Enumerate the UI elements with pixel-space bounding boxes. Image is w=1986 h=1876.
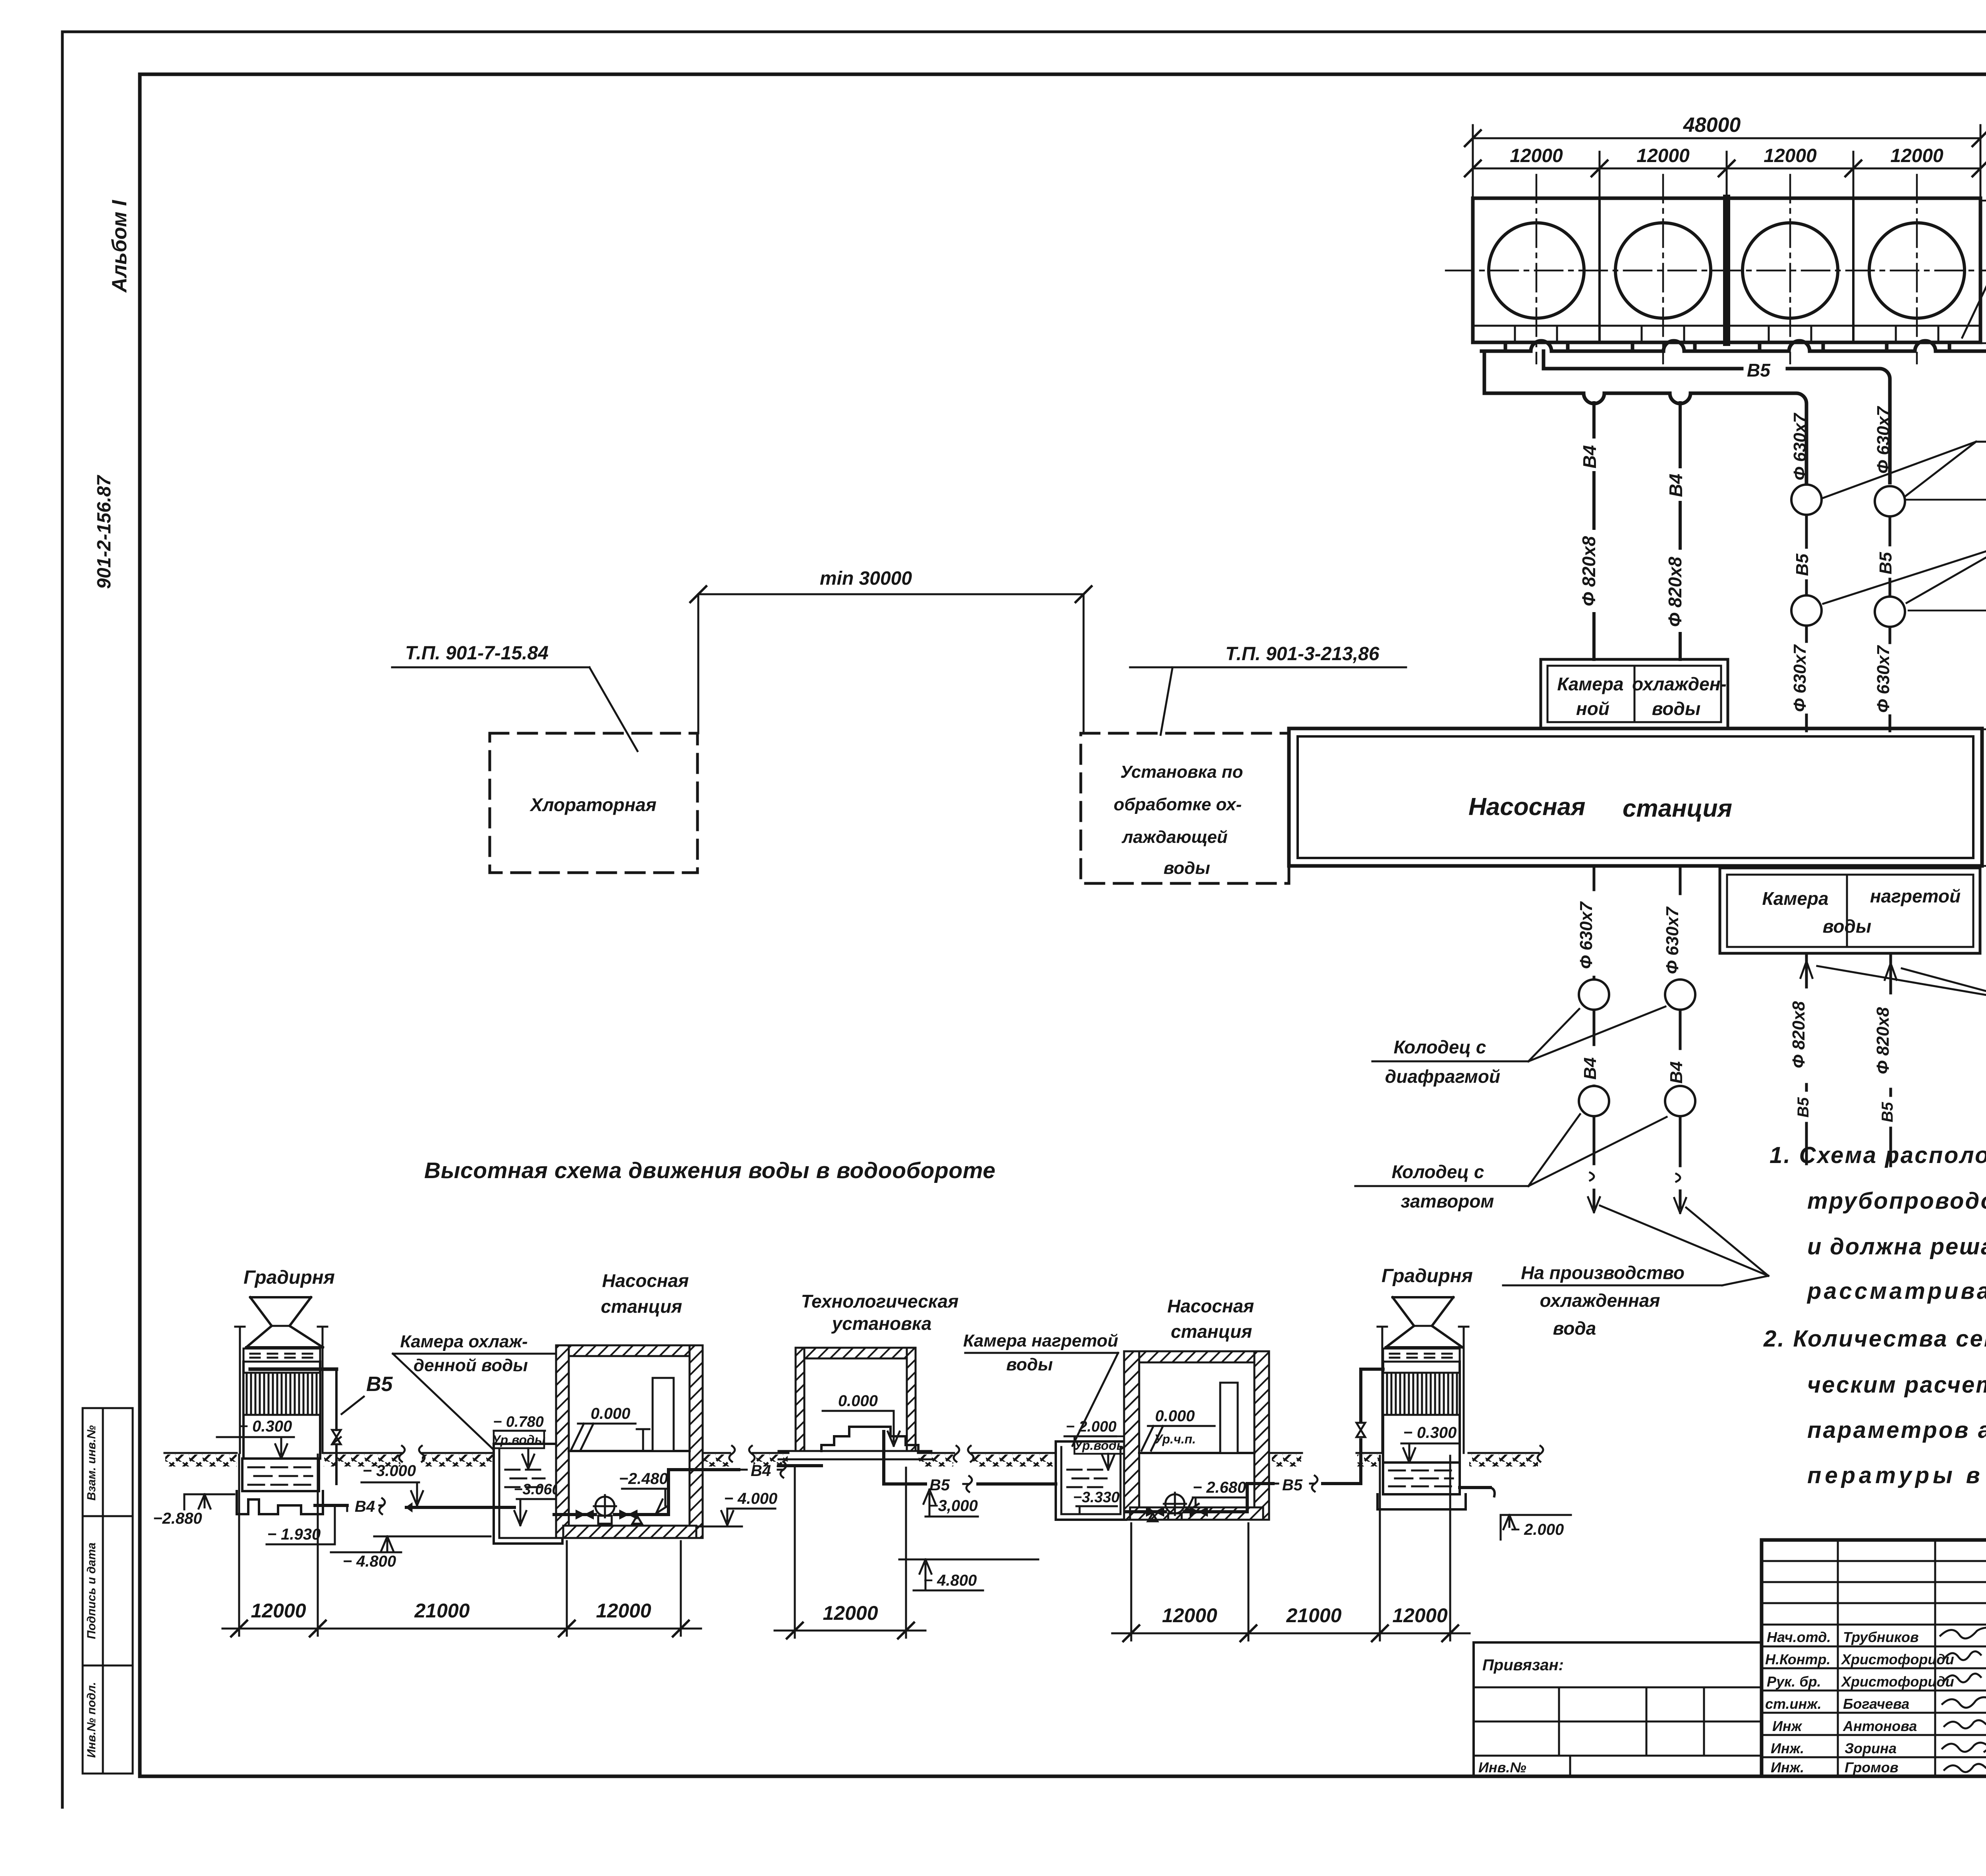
svg-text:Инж.: Инж. (1771, 1759, 1804, 1776)
svg-text:48000: 48000 (1683, 114, 1741, 137)
label B4 (between PS1 and tech) (751, 1462, 786, 1480)
dimension line group 1 (tower1 / 21000 / PS1) (222, 1455, 701, 1636)
svg-text:Камера: Камера (1762, 888, 1828, 909)
tech installation inlet pipe (779, 1464, 821, 1467)
svg-text:0.000: 0.000 (591, 1405, 630, 1422)
fan circle 4 (1869, 223, 1965, 318)
tower 2 eliminator band (1383, 1349, 1460, 1362)
svg-text:12000: 12000 (596, 1600, 651, 1622)
svg-text:12000: 12000 (1636, 145, 1690, 166)
svg-text:Ф 630х7: Ф 630х7 (1790, 644, 1810, 712)
label T.P.901-3-213.86 (1130, 643, 1406, 735)
heated water inlet pipe no.1 (below chamber) (1801, 953, 1812, 1164)
elevation -2.000 / Ур.воды (tank 2) (1064, 1418, 1127, 1470)
svg-text:12000: 12000 (251, 1600, 306, 1622)
label: Колодец с диафрагмой (upper) (1823, 520, 1986, 604)
svg-text:− 3.000: − 3.000 (363, 1462, 416, 1480)
label B4 (tower 1 outlet) (355, 1498, 385, 1515)
svg-text:Ф 820х8: Ф 820х8 (1578, 536, 1599, 606)
ground segment H (1271, 1453, 1302, 1466)
ground segment J (1468, 1446, 1543, 1466)
tower 1 outlet pipe B4 (315, 1505, 382, 1511)
pump station 1 vent (637, 1429, 649, 1451)
label B5 (PS2 discharge) (1282, 1476, 1318, 1494)
svg-text:Зорина: Зорина (1845, 1740, 1897, 1756)
riser Ф630x7 no.2 (right) (1889, 516, 1891, 731)
svg-text:Ф 630х7: Ф 630х7 (1874, 645, 1893, 713)
elevation -4.800 (right) (899, 1559, 1038, 1590)
fan circle 3 (1743, 223, 1838, 318)
cooling tower 1 funnel (246, 1297, 323, 1347)
svg-text:В5: В5 (1793, 553, 1812, 576)
elevation -4.800 (left) (331, 1536, 491, 1570)
heated water inlet pipe no.2 (below chamber) (1885, 953, 1897, 1166)
dimension line group 2 (tech installation) (775, 1468, 925, 1638)
svg-text:Инж.: Инж. (1771, 1740, 1804, 1756)
pump station 1 standpipe (653, 1378, 674, 1451)
svg-text:Ур.воды: Ур.воды (492, 1433, 546, 1447)
svg-text:0.000: 0.000 (838, 1392, 878, 1410)
svg-text:В5: В5 (929, 1476, 950, 1494)
label: Трубопроводы подводящие нагретую воду (1817, 966, 1986, 1027)
svg-text:Громов: Громов (1845, 1759, 1899, 1776)
grid line A (top) (1980, 342, 1986, 344)
cooling tower block (plan) (1473, 198, 1980, 342)
pipe to production no.2 (below pump station) (1674, 866, 1686, 1213)
svg-text:В5: В5 (1795, 1097, 1812, 1118)
tower 2 side columns with caps (1377, 1327, 1468, 1453)
label B5 (after tech) (929, 1476, 972, 1494)
svg-text:Христофориди: Христофориди (1841, 1651, 1954, 1667)
svg-text:В4: В4 (1667, 1061, 1686, 1084)
svg-text:На производство: На производство (1521, 1262, 1685, 1283)
svg-text:901-2-156.87: 901-2-156.87 (94, 475, 115, 589)
svg-text:Установка по: Установка по (1121, 762, 1243, 782)
tech installation pedestal (821, 1427, 918, 1451)
svg-text:Альбом I: Альбом I (108, 199, 131, 293)
pump 2 piping (1126, 1484, 1273, 1512)
svg-text:12000: 12000 (1764, 145, 1817, 166)
personnel table columns (1762, 1540, 1986, 1776)
svg-text:параметров атмосферного возд: параметров атмосферного воздуха, перепад… (1807, 1417, 1986, 1443)
svg-text:2. Количества секций градире: 2. Количества секций градирен уточняется… (1763, 1326, 1986, 1352)
dimension line group 3 (PS2 / 21000 / tower2) (1112, 1456, 1470, 1641)
svg-text:В4: В4 (1665, 474, 1686, 497)
tech installation building walls (796, 1348, 916, 1451)
svg-text:охлажденная: охлажденная (1540, 1290, 1660, 1311)
elevation 0.000 (PS1) (571, 1405, 636, 1450)
svg-text:В5: В5 (1876, 552, 1895, 574)
horizontal centreline through fans (1446, 270, 1986, 272)
svg-text:В4: В4 (1579, 445, 1600, 469)
svg-text:Насосная: Насосная (1167, 1296, 1254, 1316)
tower section divider 3 (1852, 198, 1855, 342)
tower 1 body side walls (243, 1362, 320, 1459)
elevation -0.780 / Ур.воды (492, 1414, 546, 1469)
svg-text:и должна решаться с учетом: и должна решаться с учетом конкретных ус… (1807, 1234, 1986, 1260)
chamber 1 tank (494, 1444, 562, 1544)
ground segment B (323, 1446, 405, 1466)
tower 2 basin underside (1377, 1494, 1466, 1509)
dimension 48000 (1465, 125, 1986, 198)
svg-text:− 1.930: − 1.930 (267, 1526, 321, 1543)
label: Камера нагретой воды (elev) (963, 1331, 1118, 1446)
svg-text:станция: станция (1623, 795, 1732, 822)
svg-text:Колодец с: Колодец с (1394, 1037, 1486, 1057)
grid line B (lower) (1982, 728, 1986, 730)
tower 2 water basin (1383, 1463, 1460, 1494)
svg-text:12000: 12000 (1510, 145, 1563, 166)
vertical centreline fan 4 (1916, 175, 1918, 363)
svg-text:Инв.№: Инв.№ (1478, 1759, 1526, 1776)
riser Ф630x7 no.1 (left) (1805, 515, 1808, 731)
svg-text:диафрагмой: диафрагмой (1385, 1066, 1500, 1087)
svg-text:В5: В5 (1747, 360, 1771, 381)
triangle support mark (632, 1516, 642, 1524)
ground segment G (968, 1446, 1054, 1466)
pipe B4 to chamber 1 (406, 1503, 514, 1511)
well (затвор) on riser 2 (1875, 486, 1905, 516)
riser B4 no.1 (Ф820x8) (1592, 403, 1596, 659)
svg-text:воды: воды (1163, 858, 1210, 878)
elevation -2.480 (619, 1470, 668, 1513)
svg-text:Привязан:: Привязан: (1482, 1656, 1564, 1674)
svg-text:− 0.300: − 0.300 (239, 1418, 292, 1435)
svg-text:охлажден-: охлажден- (1632, 674, 1727, 694)
pipe B4 to tech installation (739, 1466, 796, 1470)
svg-text:− 2.680: − 2.680 (1193, 1479, 1246, 1496)
svg-text:12000: 12000 (1890, 145, 1943, 166)
chamber 2 tank (heated water) (1056, 1441, 1126, 1520)
valve on suction (576, 1510, 593, 1519)
triangle support mark PS2 (1148, 1513, 1157, 1521)
svg-text:денной воды: денной воды (413, 1356, 528, 1375)
svg-text:Т.П. 901-3-213,86: Т.П. 901-3-213,86 (1225, 643, 1379, 665)
ground segment I (1356, 1453, 1381, 1466)
svg-text:Насосная: Насосная (1468, 793, 1586, 821)
svg-text:−2.480: −2.480 (619, 1470, 668, 1488)
svg-text:Богачева: Богачева (1843, 1696, 1909, 1712)
svg-text:− 4.000: − 4.000 (724, 1490, 778, 1507)
NOTES-DONE (1474, 1540, 1986, 1851)
svg-text:Подпись и дата: Подпись и дата (85, 1542, 98, 1639)
svg-text:12000: 12000 (1162, 1604, 1217, 1627)
svg-text:− 0.780: − 0.780 (493, 1414, 544, 1430)
svg-text:Инв.№ подл.: Инв.№ подл. (85, 1682, 98, 1758)
elevation -3.060 (514, 1481, 560, 1525)
outlet stubs below tower (1505, 342, 1949, 351)
ground segment E (749, 1446, 788, 1466)
svg-text:Ф 630х7: Ф 630х7 (1576, 901, 1596, 969)
svg-text:Ф 630х7: Ф 630х7 (1874, 406, 1893, 473)
well (диафрагма) on riser 1 (1791, 595, 1822, 626)
pump station 2 standpipe (1220, 1383, 1238, 1453)
collector pipe line 1 with jump-overs (1482, 341, 1986, 351)
tower 1 water basin (242, 1459, 319, 1491)
svg-text:вода: вода (1553, 1318, 1596, 1339)
title block outline (1762, 1540, 1986, 1776)
valves on discharge (620, 1510, 637, 1519)
privyazan table (1474, 1642, 1762, 1776)
elevation -4.000 (PS1) (696, 1490, 777, 1526)
ground segment D (703, 1446, 735, 1466)
elevation -0.300 (tower 2) (1401, 1424, 1460, 1463)
well (диафрагма) on riser 2 (1875, 597, 1905, 627)
svg-text:Взам. инв.№: Взам. инв.№ (85, 1425, 98, 1501)
svg-text:Градирня: Градирня (1381, 1265, 1473, 1287)
svg-text:−3.330: −3.330 (1073, 1489, 1119, 1506)
chamber of cooled water (plan box) (1541, 659, 1728, 728)
tower 2 fill band (stripes) (1383, 1373, 1460, 1415)
svg-text:−3.060: −3.060 (514, 1481, 560, 1498)
svg-text:Ф 820х8: Ф 820х8 (1665, 556, 1685, 627)
svg-text:станция: станция (1171, 1321, 1252, 1342)
svg-text:Технологическая: Технологическая (801, 1291, 959, 1312)
svg-text:воды: воды (1652, 698, 1700, 719)
svg-text:Ф 630х7: Ф 630х7 (1790, 412, 1810, 480)
label: Колодец с диафрагмой (lower) (1372, 1007, 1665, 1087)
tower section divider 1 (1598, 198, 1601, 342)
svg-text:В5: В5 (366, 1373, 393, 1396)
pipe B5 header (line 2) (1544, 351, 1890, 483)
ground segment A (164, 1453, 237, 1466)
svg-text:−2.880: −2.880 (153, 1510, 202, 1527)
svg-text:min 30000: min 30000 (820, 568, 912, 589)
tower 1 eliminator band (243, 1349, 320, 1362)
pump 2 (1164, 1493, 1186, 1520)
svg-text:Трубников: Трубников (1843, 1629, 1919, 1645)
pump station 2 building walls (1124, 1351, 1269, 1520)
tower 2 outlet pipe (1460, 1488, 1495, 1496)
svg-text:Градирня: Градирня (243, 1267, 335, 1288)
personnel names (1841, 1629, 1954, 1776)
dimension min 30000 (690, 568, 1092, 733)
pipe B5 from PS2 to tower 2 (1273, 1369, 1383, 1484)
svg-text:12000: 12000 (823, 1602, 878, 1624)
riser B4 no.2 (Ф820x8) (1679, 403, 1682, 659)
svg-text:В5: В5 (1879, 1102, 1896, 1123)
tower 1 fill band (stripes) (243, 1373, 320, 1415)
fan circle 2 (1615, 223, 1711, 318)
svg-text:Камера охлаж-: Камера охлаж- (400, 1332, 527, 1351)
well (затвор) on riser 1 (1791, 485, 1822, 515)
svg-text:Камера нагретой: Камера нагретой (963, 1331, 1118, 1350)
pump station (plan box) (1289, 728, 1982, 866)
svg-text:− 0.300: − 0.300 (1403, 1424, 1457, 1441)
valves pump 2 (1146, 1507, 1164, 1516)
svg-text:установка: установка (831, 1313, 932, 1334)
svg-text:В5: В5 (1282, 1476, 1303, 1494)
pump station 2 floor line (1139, 1452, 1254, 1454)
well (диафрагма) lower pipe 2 (1665, 980, 1695, 1010)
tech outlet pipe B5 down and right (884, 1432, 1056, 1484)
svg-text:Инж: Инж (1772, 1718, 1803, 1734)
label T.P.901-7-15.84 (392, 643, 638, 751)
valve on tower 2 riser (1356, 1423, 1365, 1437)
elevation 0.000 / Ур.ч.п. (PS2) (1142, 1407, 1215, 1451)
svg-text:12000: 12000 (1392, 1604, 1447, 1627)
elevation -3.000 (left) (361, 1462, 423, 1505)
vertical dimension chain at right (1905, 193, 1986, 959)
elevation -0.300 (tower 1) (217, 1418, 294, 1459)
tower section divider 2 (thick) (1723, 198, 1730, 342)
svg-text:Н.Контр.: Н.Контр. (1765, 1651, 1831, 1667)
tower internal bottom cells row (1474, 326, 1979, 342)
svg-text:Хлораторная: Хлораторная (529, 794, 656, 815)
elevation 0.000 (tech) (823, 1392, 900, 1446)
svg-text:В4: В4 (1580, 1057, 1600, 1080)
personnel roles (1765, 1629, 1831, 1776)
vertical centreline fan 3 (1789, 175, 1791, 363)
label: Вентиляторные многосекционные градирни (1962, 146, 1986, 338)
tower 1 basin underside profile (237, 1491, 323, 1514)
elevation -3.000 (right) (923, 1490, 978, 1517)
svg-text:− 2.000: − 2.000 (1066, 1418, 1117, 1435)
PLAN-DONE (153, 1158, 1571, 1641)
svg-text:обработке ох-: обработке ох- (1114, 795, 1242, 814)
svg-text:− 2.000: − 2.000 (1511, 1521, 1564, 1538)
svg-text:Ур.ч.п.: Ур.ч.п. (1154, 1432, 1196, 1446)
elevation -1.930 (267, 1505, 335, 1544)
pump 1 suction/discharge piping (554, 1470, 739, 1515)
fan circle 1 (1489, 223, 1584, 318)
svg-text:Христофориди: Христофориди (1841, 1673, 1954, 1690)
svg-text:21000: 21000 (414, 1600, 469, 1622)
label: Камера охлажденной воды (393, 1332, 554, 1450)
svg-text:Камера: Камера (1557, 674, 1623, 694)
svg-text:В4: В4 (751, 1462, 771, 1480)
svg-text:−3,000: −3,000 (929, 1497, 978, 1515)
svg-text:станция: станция (601, 1296, 682, 1317)
grid line B (top) (1980, 200, 1986, 202)
well (диафрагма) lower pipe 1 (1579, 980, 1609, 1010)
svg-text:Антонова: Антонова (1843, 1718, 1917, 1734)
tower 1 sprinkler pipe B5 (250, 1369, 341, 1484)
collector line 3 to risers (1484, 351, 1806, 483)
elevation -2.000 (tower 2) (1501, 1515, 1571, 1540)
svg-text:Ф 820х8: Ф 820х8 (1789, 1001, 1808, 1068)
grid line A (lower) (1980, 865, 1986, 867)
svg-text:воды: воды (1823, 916, 1871, 937)
svg-text:0.000: 0.000 (1155, 1407, 1195, 1425)
dimension row 12000 x4 (1465, 152, 1986, 198)
label B5 (tower 1) (342, 1373, 393, 1414)
svg-text:Нач.отд.: Нач.отд. (1767, 1629, 1831, 1645)
label: Колодец с затвором (lower) (1355, 1114, 1667, 1211)
svg-text:трубопроводов на генплане д: трубопроводов на генплане дана в качеств… (1807, 1188, 1986, 1214)
svg-text:Высотная схема движения воды в: Высотная схема движения воды в водооборо… (424, 1158, 995, 1183)
elevation -3.330 (tank 2) (1073, 1489, 1119, 1513)
elevation -2.880 (153, 1494, 234, 1527)
signatures (squiggles) (1940, 1623, 1986, 1772)
elevation -2.680 (1186, 1479, 1247, 1512)
tower 2 body side walls (1383, 1362, 1460, 1463)
svg-text:Т.П. 901-7-15.84: Т.П. 901-7-15.84 (405, 643, 549, 664)
svg-text:Ф 630х7: Ф 630х7 (1663, 906, 1682, 974)
svg-text:нагретой: нагретой (1870, 886, 1961, 906)
chamber of heated water (plan box) (1720, 868, 1980, 953)
ground segment F (918, 1446, 959, 1466)
pump station 1 floor line (569, 1450, 690, 1452)
well (затвор) lower pipe 2 (1665, 1086, 1695, 1116)
well (затвор) lower pipe 1 (1579, 1086, 1609, 1116)
svg-text:ной: ной (1576, 698, 1609, 719)
vertical centreline fan 2 (1662, 175, 1664, 363)
svg-text:Ур.воды: Ур.воды (1074, 1438, 1128, 1453)
svg-text:1. Схема расположения насосн: 1. Схема расположения насосной станции, … (1770, 1142, 1986, 1168)
svg-text:Рук. бр.: Рук. бр. (1767, 1673, 1821, 1690)
svg-text:ст.инж.: ст.инж. (1765, 1696, 1822, 1712)
svg-text:− 4.800: − 4.800 (343, 1553, 396, 1570)
vertical centreline fan 1 (1536, 175, 1538, 363)
pump 1 (594, 1495, 616, 1524)
dashed box: Хлораторная (490, 733, 697, 873)
tower 1 side columns with caps (235, 1327, 327, 1453)
dashed box: Установка по обработке (1081, 733, 1289, 883)
left margin stamp boxes (83, 1408, 133, 1774)
svg-text:затвором: затвором (1401, 1191, 1494, 1211)
ground segment C (419, 1446, 494, 1466)
svg-text:воды: воды (1006, 1355, 1053, 1374)
tech installation base slab (779, 1451, 931, 1459)
pump station 1 building walls (556, 1345, 703, 1538)
svg-text:21000: 21000 (1286, 1604, 1341, 1627)
label: Колодец с затвором (upper) (1822, 418, 1986, 498)
svg-text:Ф 820х8: Ф 820х8 (1873, 1007, 1893, 1074)
svg-text:В4: В4 (355, 1498, 375, 1515)
svg-text:Насосная: Насосная (602, 1270, 689, 1291)
svg-text:Колодец с: Колодец с (1392, 1161, 1484, 1182)
cooling tower 2 funnel (1386, 1297, 1462, 1347)
label: На производство охлажденная вода (1503, 1206, 1768, 1339)
pipe to production no.1 (below pump station) (1588, 866, 1600, 1212)
svg-text:лаждающей: лаждающей (1121, 827, 1227, 847)
svg-text:ческим расчетом, в зависимо: ческим расчетом, в зависимости от расчет… (1807, 1372, 1986, 1398)
ELEV-DONE (1763, 1142, 1986, 1488)
